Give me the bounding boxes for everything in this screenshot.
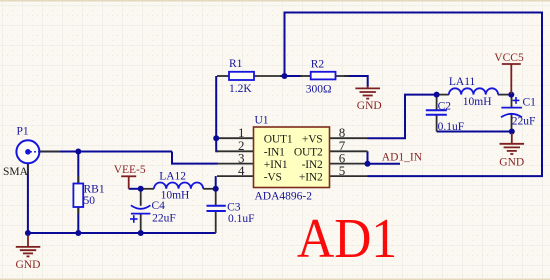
- pin 6 stub: [330, 163, 368, 165]
- wire pin8 to LC node: [368, 95, 437, 139]
- svg-text:OUT2: OUT2: [294, 147, 323, 159]
- connector P1 center dot: [25, 149, 31, 155]
- svg-text:+IN2: +IN2: [299, 171, 323, 183]
- svg-text:-IN1: -IN1: [264, 147, 285, 159]
- C1 top lead: [511, 95, 513, 108]
- node LA11/VCC5/C1: [508, 92, 514, 98]
- svg-text:0.1uF: 0.1uF: [438, 121, 465, 133]
- resistor R1 body: [229, 72, 254, 80]
- svg-text:+IN1: +IN1: [264, 159, 288, 171]
- power port VCC5: [502, 64, 521, 94]
- svg-text:C4: C4: [152, 200, 166, 212]
- capacitor C4 plates (polarized): [131, 205, 151, 213]
- capacitor C1 plates (polarized): [501, 108, 522, 118]
- wire bottom rail: [28, 232, 216, 234]
- pin 3 stub: [217, 163, 254, 165]
- node pin1: [213, 135, 219, 141]
- wire R1 left vertical to pin1 pin2: [216, 76, 218, 151]
- node rail/RB1: [75, 230, 81, 236]
- svg-text:GND: GND: [357, 100, 382, 112]
- RB1 leads: [77, 176, 79, 184]
- node pin6/AD1_IN: [365, 161, 371, 167]
- resistor RB1 body: [73, 184, 83, 208]
- node VEE5/LA12/C4: [138, 186, 144, 192]
- wire R1 right to R2: [280, 75, 302, 77]
- wire pin7 to pin6 vertical: [367, 151, 369, 163]
- svg-text:ADA4896-2: ADA4896-2: [255, 191, 313, 203]
- svg-text:C2: C2: [438, 101, 452, 113]
- inductor LA11 humps: [449, 88, 498, 94]
- R1 left lead: [217, 75, 229, 77]
- capacitor C4 plus sign: [130, 215, 138, 223]
- wire P1 to jog: [39, 151, 172, 153]
- svg-text:AD1: AD1: [297, 207, 397, 269]
- wire RB1 bottom drop: [77, 207, 79, 234]
- capacitor C2 plates: [426, 110, 447, 115]
- svg-text:GND: GND: [499, 157, 524, 169]
- svg-text:R2: R2: [311, 59, 325, 71]
- capacitor C1 plus sign: [513, 97, 520, 104]
- C3 bottom lead: [215, 211, 217, 233]
- ground symbol mid (R2): [355, 86, 380, 99]
- C2 top lead: [436, 95, 438, 110]
- pin 4 stub: [217, 175, 254, 177]
- svg-text:R1: R1: [229, 58, 243, 70]
- C1 bottom lead: [511, 113, 513, 132]
- P1 ground pin stub: [27, 163, 29, 175]
- inductor LA12 humps: [154, 183, 203, 189]
- node P1/RB1: [75, 149, 81, 155]
- svg-text:22uF: 22uF: [152, 213, 176, 225]
- LA12 left lead: [141, 188, 154, 190]
- sheet border top edge: [0, 0, 550, 2]
- svg-text:VCC5: VCC5: [494, 52, 524, 64]
- svg-text:C1: C1: [523, 97, 537, 109]
- P1 pin stub: [40, 151, 61, 153]
- capacitor C3 plates: [207, 206, 226, 211]
- ground symbol right (C1): [500, 133, 525, 154]
- svg-text:AD1_IN: AD1_IN: [382, 152, 423, 164]
- maroon net / power labels: [16, 52, 525, 271]
- C4 top lead: [140, 189, 142, 206]
- wire pin4 down to LA12 node: [215, 176, 217, 189]
- R2 left lead: [300, 75, 311, 77]
- resistor R2 body: [311, 72, 336, 80]
- svg-text:SMA: SMA: [3, 166, 29, 178]
- pin 2 stub: [217, 150, 254, 152]
- ground symbol bottom-left: [16, 236, 41, 256]
- LA11 right lead: [498, 94, 511, 96]
- svg-text:22uF: 22uF: [512, 115, 536, 127]
- svg-text:P1: P1: [17, 126, 29, 138]
- svg-text:+VS: +VS: [302, 134, 323, 146]
- svg-text:GND: GND: [16, 259, 41, 271]
- pin 1 stub: [217, 137, 254, 139]
- sheet border bottom edge: [0, 279, 550, 280]
- wire jog down to pin3: [172, 152, 218, 164]
- node rail/P1/GND: [25, 230, 31, 236]
- svg-text:OUT1: OUT1: [264, 134, 293, 146]
- node R1/R2/feedback: [282, 73, 288, 79]
- pin 5 stub: [330, 175, 368, 177]
- wire AD1_IN stub: [368, 163, 401, 165]
- svg-text:0.1uF: 0.1uF: [228, 213, 255, 225]
- svg-text:RB1: RB1: [84, 184, 105, 196]
- svg-text:1.2K: 1.2K: [229, 83, 252, 95]
- wire top feedback loop: [285, 13, 543, 177]
- svg-text:50: 50: [84, 195, 96, 207]
- pin 8 stub: [330, 137, 368, 139]
- node rail/C4: [138, 230, 144, 236]
- node LA12/pin4/C3: [213, 186, 219, 192]
- svg-text:10mH: 10mH: [463, 96, 492, 108]
- node rail/C1/GND: [509, 129, 515, 135]
- svg-text:LA12: LA12: [159, 171, 186, 183]
- svg-text:VEE-5: VEE-5: [114, 164, 146, 176]
- wire P1 down to rail: [27, 163, 29, 234]
- wire C2 bottom rail to C1: [437, 131, 512, 133]
- LA11 left lead: [437, 94, 449, 96]
- svg-text:300Ω: 300Ω: [306, 84, 332, 96]
- svg-text:LA11: LA11: [449, 76, 476, 88]
- wire VEE-5 to LA12 node: [129, 188, 141, 190]
- C4 bottom lead: [140, 214, 142, 233]
- LA12 right lead: [203, 188, 216, 190]
- R1 right lead: [254, 75, 281, 77]
- wire RB1 top drop: [77, 152, 79, 185]
- pin 7 stub: [330, 150, 368, 152]
- svg-text:4: 4: [238, 163, 245, 178]
- connector P1 dashed tap: [30, 151, 39, 153]
- op-amp U1 body: [254, 127, 330, 188]
- wire R2 right to GND drop: [344, 76, 368, 87]
- svg-text:5: 5: [339, 163, 346, 178]
- pin numbers: [238, 125, 346, 178]
- chip pin names: [264, 134, 323, 184]
- C2 bottom lead: [436, 115, 438, 132]
- R2 right lead: [336, 75, 350, 77]
- svg-text:C3: C3: [227, 202, 241, 214]
- power port VEE-5: [121, 176, 136, 189]
- C3 top lead: [215, 189, 217, 205]
- svg-text:U1: U1: [255, 115, 269, 127]
- node C2/LA11: [434, 92, 440, 98]
- connector P1 circle: [16, 140, 39, 163]
- svg-text:-VS: -VS: [264, 171, 282, 183]
- svg-text:-IN2: -IN2: [302, 159, 323, 171]
